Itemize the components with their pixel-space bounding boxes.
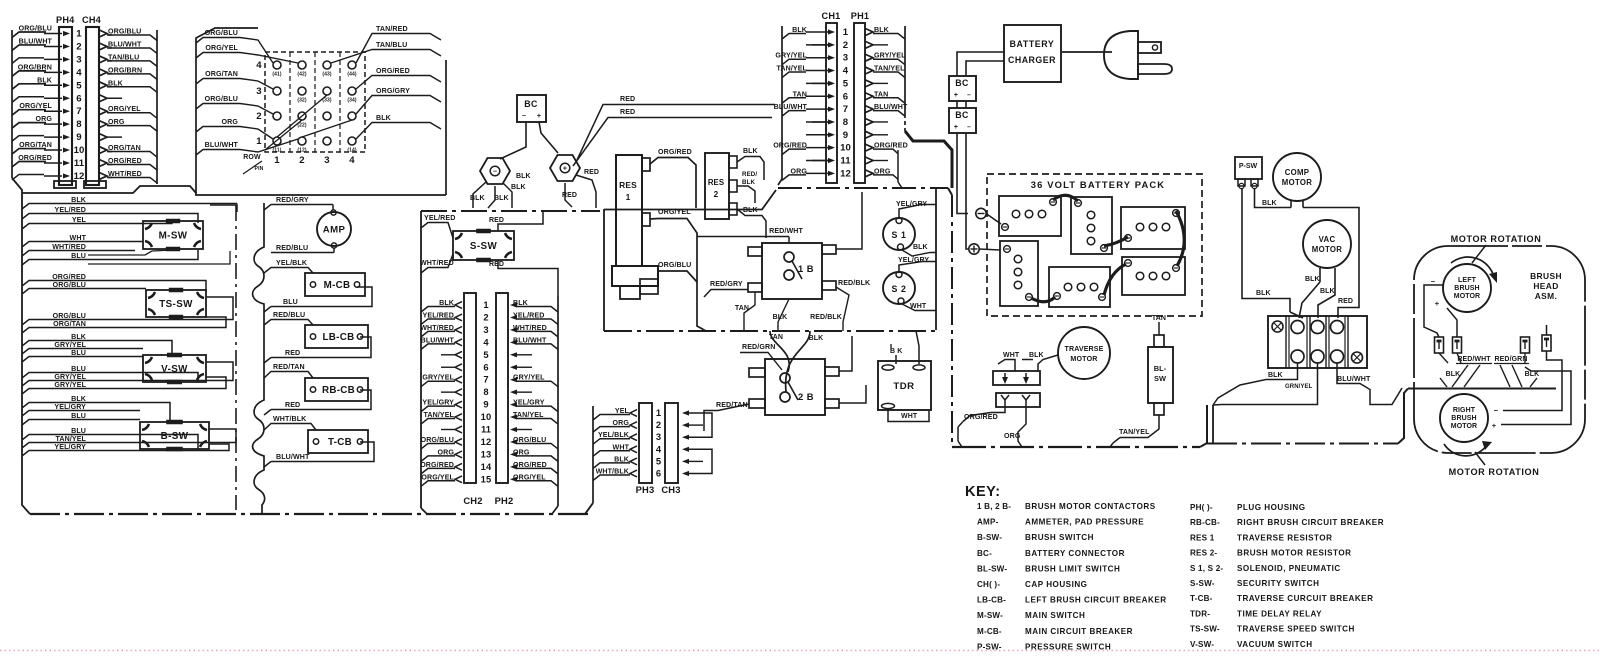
svg-text:TAN/YEL: TAN/YEL [874,65,905,73]
svg-text:KEY:: KEY: [965,484,1001,500]
wire RED/BLU from AMP [271,244,334,253]
svg-text:RED/TAN: RED/TAN [273,363,305,371]
battery plug positive (hex connector) [550,155,580,181]
wire stub from PH2 pin 11 [510,427,532,432]
connector CH1/PH1 housing bars [822,11,870,183]
wire GRY/YEL into CH1 pin 3 [775,52,835,65]
wire GRN/YEL from strip [1213,363,1318,443]
svg-text:TDR: TDR [893,381,914,392]
svg-text:PH2: PH2 [495,495,514,506]
wire ORG/RED from RES 1 [650,148,696,208]
svg-text:TRAVERSE SPEED SWITCH: TRAVERSE SPEED SWITCH [1237,625,1355,634]
svg-text:(34): (34) [347,98,357,104]
wire stub into PH4 pin 12 [12,173,70,180]
svg-text:PH1: PH1 [851,11,869,21]
RES section border left [604,190,776,331]
svg-text:MOTOR ROTATION: MOTOR ROTATION [1451,234,1542,244]
TS-SW wiring [88,281,233,328]
svg-text:WHT/RED: WHT/RED [52,243,86,251]
svg-text:BLK: BLK [108,79,124,87]
brush motor contactor 2B [749,359,839,415]
svg-text:VACUUM SWITCH: VACUUM SWITCH [1237,640,1313,649]
svg-text:BLU/WHT: BLU/WHT [276,453,310,461]
svg-text:RED/BLU: RED/BLU [276,244,308,252]
svg-text:13: 13 [481,448,492,459]
PH4/CH4 pin numbers 1-12 [74,29,85,182]
wire stub from PH2 pin 5 [510,352,532,357]
key entry P-SW- PRESSURE SWITCH [977,642,1111,651]
key entry TDR- TIME DELAY RELAY [1190,609,1322,618]
wire TAN from PH1 pin 6 [865,90,905,103]
svg-text:3: 3 [843,53,848,64]
wire BLK into PH4 pin 5 [12,76,70,89]
svg-text:TAN: TAN [735,305,749,312]
svg-text:BLK: BLK [71,395,87,403]
svg-text:15: 15 [481,473,492,484]
key entry CH( )- CAP HOUSING [977,580,1087,589]
wire TAN/BLU from CH4 pin 3 [99,53,157,66]
svg-text:MAIN CIRCUIT BREAKER: MAIN CIRCUIT BREAKER [1025,627,1133,636]
wire ORG into PH3 pin 2 [593,419,637,432]
svg-text:6: 6 [483,361,488,372]
svg-text:PLUG HOUSING: PLUG HOUSING [1237,503,1306,512]
pin grid cavity numbers [256,60,357,166]
svg-text:ORG: ORG [1004,432,1021,440]
svg-text:BLU: BLU [71,427,86,435]
svg-text:TRAVERSE RESISTOR: TRAVERSE RESISTOR [1237,533,1332,542]
svg-text:TDR-: TDR- [1190,609,1210,618]
svg-text:CH3: CH3 [661,484,680,495]
PH1 right flag spine [904,26,906,131]
svg-text:BLU: BLU [71,412,86,420]
svg-text:+: + [537,111,542,120]
wire label WHT (switch column) [22,234,88,247]
left trunk wire (section border) [12,178,30,514]
svg-text:11: 11 [481,424,491,435]
svg-text:BRUSH: BRUSH [1530,271,1562,281]
svg-text:2: 2 [714,190,719,199]
svg-text:TS-SW: TS-SW [159,299,193,310]
svg-text:9: 9 [843,130,848,141]
svg-text:CH4: CH4 [82,15,102,25]
svg-text:LEFT: LEFT [1458,277,1477,284]
wire stub into CH1 pin 11 [806,158,835,163]
trunk wire into brush head [1207,389,1408,444]
svg-text:PH4: PH4 [56,15,75,25]
svg-text:GRY/YEL: GRY/YEL [54,381,86,389]
svg-text:YEL/GRY: YEL/GRY [513,399,545,407]
svg-text:TIME DELAY RELAY: TIME DELAY RELAY [1237,609,1322,618]
battery 2 [1071,197,1112,254]
svg-text:6: 6 [656,468,661,479]
svg-text:BLU/WHT: BLU/WHT [1337,375,1371,383]
svg-text:BLU/WHT: BLU/WHT [421,336,455,344]
AC power cord [1061,51,1112,53]
svg-text:CH1: CH1 [822,11,841,21]
svg-text:ORG/RED: ORG/RED [874,142,908,150]
wire RED/BLK from 1B right top [836,192,871,287]
CH3 jumper pins 4-6 [682,447,712,476]
svg-text:1: 1 [274,155,280,166]
svg-text:1: 1 [483,299,488,310]
wire label YEL/RED (switch column) [22,206,88,219]
svg-text:5: 5 [656,455,661,466]
svg-text:2: 2 [76,41,81,52]
svg-text:ORG: ORG [613,419,630,427]
right brush circuit breaker RB-CB [305,378,368,401]
svg-text:RED/: RED/ [742,171,757,178]
wire label WHT/RED (switch column) [22,243,88,256]
wire BLU from M-CB [264,287,372,312]
svg-text:RED: RED [620,108,635,116]
svg-text:ORG: ORG [36,115,53,123]
svg-text:ORG/BLU: ORG/BLU [53,281,86,289]
wire stub from PH1 pin 5 [865,80,888,87]
wire ORG/BLU from RES 1 [658,261,697,282]
svg-text:TRAVERSE: TRAVERSE [1065,345,1104,353]
svg-text:RED: RED [489,217,504,224]
svg-text:S-SW-: S-SW- [1190,579,1215,588]
svg-text:YEL/RED: YEL/RED [513,311,544,319]
svg-text:11: 11 [74,158,85,169]
wire label TAN/YEL (switch column) [22,435,88,448]
svg-text:RED: RED [1338,298,1353,305]
battery plug negative (hex connector) [480,158,510,184]
wire label YEL (switch column) [22,216,88,229]
svg-text:YEL: YEL [72,216,87,224]
wire label BLU (switch column) [22,427,88,440]
wire RED/GRY to 1B [704,280,748,297]
cap-housing section outline [196,28,446,195]
wire BLK from strip to trunk [1213,363,1298,405]
svg-text:RB-CB-: RB-CB- [1190,518,1220,527]
wire ORG/BLU into CH2 pin 12 [421,436,462,449]
brush holder 1 [1435,337,1444,353]
wire BLK from pin grid [356,114,441,139]
wire label BLK (switch column) [22,196,88,209]
svg-text:GRN/YEL: GRN/YEL [1285,384,1313,390]
wire RED/BLK from RES 2 mid [737,171,757,203]
wire BLU/WHT into CH2 pin 4 [421,336,462,349]
svg-text:BLK: BLK [809,335,824,342]
svg-text:RED: RED [562,192,577,199]
svg-text:ORG/YEL: ORG/YEL [421,473,454,481]
svg-text:S 2: S 2 [891,284,906,294]
svg-text:TAN/RED: TAN/RED [376,25,408,33]
svg-text:ORG: ORG [438,448,455,456]
svg-text:ORG/YEL: ORG/YEL [205,44,238,52]
wire stub from PH2 pin 6 [510,365,532,370]
svg-text:LB-CB: LB-CB [323,332,355,343]
svg-text:ORG/GRY: ORG/GRY [376,87,410,95]
right brush motor wiring [1501,351,1571,425]
key entry B-SW- BRUSH SWITCH [977,533,1094,542]
svg-text:BRUSH LIMIT SWITCH: BRUSH LIMIT SWITCH [1025,564,1120,573]
wire BLU/WHT from strip [1337,363,1402,405]
svg-text:5: 5 [843,78,849,89]
svg-text:BC: BC [524,99,538,109]
pin grid internal jumper wires [265,95,352,150]
wires WHT BLK to traverse motor connector [998,352,1058,371]
connector PH3/CH3 housing bars [636,403,681,495]
svg-text:WHT/RED: WHT/RED [420,324,454,332]
svg-text:RED/BLU: RED/BLU [273,311,305,319]
wire YEL/GRY from PH2 pin 9 [510,399,558,412]
terminal strip [1268,316,1367,368]
svg-text:3: 3 [256,86,261,97]
svg-text:YEL/GRY: YEL/GRY [54,403,86,411]
svg-text:RED/BLK: RED/BLK [838,279,871,287]
svg-text:RES 2-: RES 2- [1190,549,1217,558]
motor rotation arrow top [1451,245,1497,283]
svg-text:WHT/BLK: WHT/BLK [273,415,307,423]
brush holder 3 [1521,337,1530,353]
wire BC to battery positive [966,133,968,249]
MOTOR ROTATION label bottom [1449,467,1540,477]
key entry M-CB- MAIN CIRCUIT BREAKER [977,627,1133,636]
svg-text:BLK: BLK [1268,372,1283,379]
svg-text:SW: SW [1154,374,1166,383]
right brush motor polarity [1492,406,1499,430]
wire stub from PH1 pin 11 [865,157,888,164]
battery charger [1004,25,1061,82]
svg-text:WHT/RED: WHT/RED [108,170,142,178]
brush head assembly enclosure [1414,246,1585,453]
svg-text:10: 10 [840,143,851,154]
PH1 trunk wire to battery section [898,131,952,188]
svg-text:BLU/WHT: BLU/WHT [19,37,53,45]
svg-text:ASM.: ASM. [1535,291,1558,301]
wire RED from LB-CB [264,337,371,363]
svg-text:ORG/BLU: ORG/BLU [658,261,691,269]
svg-text:5: 5 [483,349,488,360]
svg-text:TAN/YEL: TAN/YEL [513,411,544,419]
wire YEL/RED to S-SW [421,214,455,238]
svg-text:WHT: WHT [910,303,927,310]
wire WHT/BLK to T-CB [264,415,316,430]
vacuum motor VAC MOTOR [1303,220,1351,268]
CH1/PH1 pin numbers 1-12 [840,27,851,179]
svg-text:RB-CB: RB-CB [322,385,355,396]
svg-text:YEL/RED: YEL/RED [424,214,455,222]
battery 6 [1122,257,1185,295]
svg-text:4: 4 [256,60,262,71]
key entry T-CB- TRAVERSE CURCUIT BREAKER [1190,594,1373,603]
PH4 left wire-label spine [11,30,13,178]
svg-text:6: 6 [843,91,848,102]
svg-text:WHT/BLK: WHT/BLK [596,468,630,476]
svg-text:WHT: WHT [1003,352,1020,359]
wire label YEL/GRY (switch column) [22,443,88,456]
svg-text:4: 4 [843,66,849,77]
svg-text:1 B, 2 B-: 1 B, 2 B- [977,502,1011,511]
svg-text:12: 12 [840,168,851,179]
svg-text:5: 5 [76,80,82,91]
RES section bottom border [604,330,936,332]
wire BLU/WHT into pin grid [196,139,298,155]
svg-text:TAN/YEL: TAN/YEL [1119,428,1150,436]
key entry LB-CB- LEFT BRUSH CIRCUIT BREAKER [977,596,1167,605]
wire RED/BLU to LB-CB [264,311,313,325]
wire ORG/RED from connector [958,407,1005,447]
svg-text:BLU/WHT: BLU/WHT [108,40,142,48]
CH1 section bottom border [778,188,952,195]
svg-text:7: 7 [843,104,848,115]
wire BC to battery negative [957,133,968,214]
wire label GRY/YEL (switch column) [22,373,88,386]
svg-text:ORG/BLU: ORG/BLU [19,25,52,33]
svg-text:ORG/BLU: ORG/BLU [205,95,238,103]
svg-text:BATTERY CONNECTOR: BATTERY CONNECTOR [1025,549,1125,558]
svg-text:BLK: BLK [743,148,758,155]
motor rotation arrow bottom [1444,441,1492,465]
svg-text:RIGHT BRUSH CIRCUIT BREAKER: RIGHT BRUSH CIRCUIT BREAKER [1237,518,1384,527]
svg-text:TAN: TAN [874,90,888,98]
wire GRY/YEL from PH2 pin 7 [510,374,558,387]
svg-text:ORG/RED: ORG/RED [773,142,807,150]
svg-text:TAN: TAN [793,90,807,98]
svg-text:ORG/YEL: ORG/YEL [658,208,691,216]
wire ORG/YEL from CH4 pin 7 [99,105,157,118]
wire RED/TAN to RB-CB [264,363,313,378]
svg-text:(43): (43) [322,72,332,78]
key entry M-SW- MAIN SWITCH [977,611,1085,620]
svg-text:BLK: BLK [1320,288,1335,295]
wire ORG/YEL into PH4 pin 7 [12,102,70,115]
svg-text:GRY/YEL: GRY/YEL [422,374,454,382]
security switch S-SW [453,231,514,260]
connector CH2/PH2 housing bars [463,293,513,506]
connector PH4/CH4 housing bars [54,15,106,188]
cap-housing pin grid dashed outline [265,52,365,152]
wire ORG/YEL into pin grid [196,44,298,63]
wire ORG/YEL from RES 1 [650,208,706,331]
wire TAN/YEL from BL-SW [1110,415,1159,447]
wire YEL/BLK into PH3 pin 3 [593,431,637,444]
svg-text:YEL/GRY: YEL/GRY [422,399,454,407]
svg-text:ORG/YEL: ORG/YEL [19,102,52,110]
svg-text:TAN/YEL: TAN/YEL [55,435,86,443]
svg-text:SECURITY SWITCH: SECURITY SWITCH [1237,579,1319,588]
wire stub from PH1 pin 2 [865,41,888,48]
svg-text:2: 2 [483,311,488,322]
svg-text:4: 4 [349,155,355,166]
svg-text:BLU: BLU [71,365,86,373]
brush motor contactor 1B [748,243,836,299]
svg-text:3: 3 [656,431,661,442]
svg-text:(44): (44) [347,72,357,78]
svg-text:BC-: BC- [977,549,992,558]
KEY heading [965,484,1001,500]
key entry BL-SW- BRUSH LIMIT SWITCH [977,564,1120,573]
COMP MOTOR lead stubs [1291,201,1303,208]
ROW / PIN callout [243,154,264,174]
svg-text:1: 1 [843,27,849,38]
PH3 left flag spine [585,406,593,514]
svg-text:RED: RED [489,261,504,268]
36 volt battery pack enclosure (dashed) [987,174,1202,316]
wires RED/WHT RED/GRN [1439,353,1529,387]
wire BLK into CH1 pin 1 [782,26,835,39]
key entry PH( )- PLUG HOUSING [1190,503,1306,512]
wire ORG into pin grid [196,118,273,139]
wire stub from PH1 pin 9 [865,131,888,138]
wire label BLU (switch column) [22,252,88,265]
key entry RES 1 TRAVERSE RESISTOR [1190,533,1332,542]
svg-text:RED/GRY: RED/GRY [710,280,743,288]
svg-text:10: 10 [74,145,85,156]
svg-text:ORG/YEL: ORG/YEL [513,473,546,481]
PH3/CH3 pin numbers 1-6 [656,407,662,479]
svg-text:GRY/YEL: GRY/YEL [513,374,545,382]
brush holder 2 [1453,337,1462,353]
wire BLK from PH2 pin 1 [510,299,558,312]
wire BLK from CH4 pin 5 [99,79,157,92]
svg-text:V-SW-: V-SW- [1190,640,1214,649]
negative terminal [976,208,1001,224]
svg-text:YEL/BLK: YEL/BLK [598,431,630,439]
key entry TS-SW- TRAVERSE SPEED SWITCH [1190,625,1355,634]
svg-text:(12): (12) [297,148,307,154]
key entry RES 2- BRUSH MOTOR RESISTOR [1190,549,1351,558]
scan artifact dotted line [0,650,1600,652]
key entry V-SW- VACUUM SWITCH [1190,640,1313,649]
wire stub into CH1 pin 2 [806,42,835,47]
left border of motor section (dash-dot) [951,195,953,447]
wire YEL/GRY to S1 [896,201,936,217]
wire stub into PH4 pin 9 [12,135,70,142]
wire ORG/TAN from CH4 pin 10 [99,144,157,157]
wire stub into CH2 pin 5 [441,351,462,358]
svg-text:7: 7 [483,374,488,385]
svg-text:MAIN SWITCH: MAIN SWITCH [1025,611,1085,620]
svg-text:BLK: BLK [1305,276,1320,283]
wire BLK from S1 [902,244,936,256]
wire label GRY/YEL (switch column) [22,381,88,394]
svg-text:CAP HOUSING: CAP HOUSING [1025,580,1087,589]
wire ORG/BLU into PH4 pin 1 [12,25,70,38]
svg-text:M-SW-: M-SW- [977,611,1003,620]
svg-text:M-CB: M-CB [324,280,351,291]
wire stub into CH2 pin 8 [441,389,462,396]
svg-text:ORG/RED: ORG/RED [52,273,86,281]
svg-text:BLU/WHT: BLU/WHT [774,103,808,111]
svg-text:ORG/YEL: ORG/YEL [108,105,141,113]
svg-text:MOTOR: MOTOR [1070,355,1097,363]
wire BLK from RES 2 bottom [737,207,766,238]
wire BLK into CH2 pin 1 [421,299,462,312]
wire BLU/WHT from T-CB [264,442,374,467]
traverse speed switch TS-SW [146,290,206,317]
svg-text:BLK: BLK [913,244,928,251]
svg-text:BLU/WHT: BLU/WHT [513,336,547,344]
svg-text:4: 4 [483,336,489,347]
wire BLK into PH3 pin 5 [593,455,637,468]
svg-text:YEL: YEL [615,407,630,415]
svg-text:RED: RED [285,401,300,409]
svg-text:+: + [1435,299,1440,308]
wire ORG/TAN into PH4 pin 10 [12,141,70,154]
wires BLK at brush bus [1440,353,1539,387]
pin grid contact circles 4x4 [273,61,356,145]
svg-text:ORG/BLU: ORG/BLU [513,436,546,444]
AMP section flag spine with S-curves [253,203,265,514]
svg-text:9: 9 [76,132,81,143]
traverse resistor RES 1 [612,155,658,299]
svg-text:BLK: BLK [742,179,755,186]
svg-text:14: 14 [481,461,492,472]
svg-text:2: 2 [843,40,848,51]
